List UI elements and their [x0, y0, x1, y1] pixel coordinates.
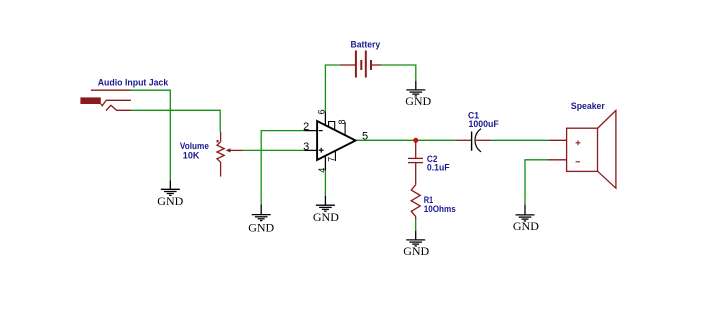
op-amp pin 7 stub — [334, 151, 336, 161]
wire speaker minus to ground — [525, 160, 548, 205]
speaker SP1 — [567, 128, 598, 171]
svg-text:1000uF: 1000uF — [469, 119, 500, 129]
svg-text:7: 7 — [327, 157, 337, 162]
svg-text:Volume: Volume — [180, 141, 209, 151]
svg-text:3: 3 — [303, 141, 309, 153]
svg-text:GND: GND — [157, 194, 183, 208]
wire battery to ground — [382, 65, 416, 81]
op-amp pin 4 stub — [324, 155, 326, 170]
ground GND5 (R1) — [406, 231, 425, 246]
battery B1 — [340, 51, 382, 78]
resistor R1 10Ohms — [411, 185, 420, 220]
ground GND6 (speaker) — [516, 205, 535, 221]
speaker leads — [549, 139, 566, 141]
op-amp apex stub pin 5 — [353, 139, 357, 141]
wire wiper to op-amp pin 3 — [243, 149, 305, 151]
svg-text:10K: 10K — [183, 150, 200, 160]
svg-text:2: 2 — [303, 121, 309, 133]
op-amp minus sign — [319, 130, 323, 132]
capacitor C2 0.1uF — [408, 142, 423, 185]
svg-text:GND: GND — [313, 210, 339, 224]
potentiometer R2 Volume 10K — [217, 132, 224, 177]
svg-text:GND: GND — [403, 244, 429, 258]
wire C1 to speaker — [491, 139, 549, 141]
svg-text:Speaker: Speaker — [571, 101, 605, 111]
op-amp pin 2 stub — [305, 130, 317, 132]
speaker plus sign — [576, 142, 581, 144]
capacitor C1 1000uF electrolytic — [456, 139, 471, 141]
audio jack J1 sleeve lead — [91, 89, 131, 91]
wire R1 to ground — [415, 220, 417, 232]
op-amp U1 triangle — [317, 121, 356, 160]
op-amp pin 3 stub — [305, 149, 317, 151]
svg-text:Battery: Battery — [351, 39, 381, 49]
svg-text:0.1uF: 0.1uF — [427, 162, 450, 172]
ground GND2 (pin 2) — [252, 204, 271, 220]
junction dot output node — [413, 138, 418, 143]
op-amp pins 1-8 bracket — [329, 122, 335, 131]
wire op-amp output net — [357, 139, 457, 141]
svg-text:GND: GND — [248, 221, 274, 235]
op-amp pin 8 stub — [344, 122, 346, 135]
wire jack tip to pot top — [131, 110, 220, 131]
speaker minus sign — [576, 161, 580, 163]
audio jack J1 plug body — [80, 97, 100, 104]
op-amp pin 6 stub — [324, 111, 326, 126]
potentiometer tick — [217, 140, 219, 142]
op-amp plus sign — [319, 149, 324, 151]
audio jack J1 switch contact — [106, 105, 131, 110]
audio jack J1 tip contact — [101, 100, 131, 106]
svg-text:Audio Input Jack: Audio Input Jack — [98, 78, 170, 88]
svg-text:10Ohms: 10Ohms — [424, 204, 456, 214]
wire jack sleeve to ground — [131, 90, 170, 180]
ground GND4 (pin 4) — [316, 196, 335, 212]
wire op-amp pin 2 to ground — [261, 131, 304, 205]
ground GND3 (battery) — [406, 81, 425, 96]
svg-text:GND: GND — [405, 94, 431, 108]
wire pin 4 to ground — [324, 171, 326, 196]
wire pin 6 to battery — [325, 65, 339, 111]
ground GND1 (jack) — [161, 181, 180, 196]
svg-text:GND: GND — [513, 219, 539, 233]
potentiometer wiper arrow — [230, 149, 243, 151]
svg-text:8: 8 — [337, 119, 347, 124]
